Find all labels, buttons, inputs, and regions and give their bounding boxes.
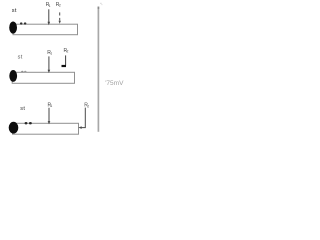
label R1 (row 3) [48, 103, 53, 109]
axon fiber 1 (top bar) [13, 24, 78, 35]
label R2 (row 1) [56, 2, 61, 8]
label st (row 3) [20, 106, 25, 112]
axon fiber 3 (bottom bar) [13, 123, 79, 134]
svg-text:'75mV: '75mV [105, 80, 124, 87]
svg-text:st: st [18, 54, 23, 60]
stimulus electrode dots on axon 2 [21, 71, 26, 73]
svg-text:st: st [20, 106, 25, 112]
svg-text:2: 2 [87, 104, 89, 108]
electrode R2 elbow wire into cut end of axon 3 [78, 108, 85, 129]
electrode R2 lead wire (row 2) [65, 55, 67, 65]
svg-text:1: 1 [50, 51, 52, 55]
electrode R1 arrow into axon 2 [48, 56, 51, 73]
electrode R1 arrow into axon 3 [48, 108, 51, 125]
svg-text:st: st [12, 8, 17, 14]
voltage scale line [97, 7, 99, 132]
label R1 (row 2) [47, 50, 52, 56]
label R2 (row 3) [84, 103, 89, 109]
label R1 (row 1) [46, 2, 51, 8]
axon fiber 2 (middle bar) [12, 72, 74, 83]
stimulus electrode dots on axon 3 [25, 122, 32, 124]
cut end cap of axon 1 [9, 22, 17, 34]
electrode R2 dashed arrow onto surface of axon 1 [59, 12, 61, 23]
label -75mV on voltage scale [105, 80, 124, 87]
label st (row 1) [12, 8, 17, 14]
stimulus electrode dots on axon 1 [20, 22, 27, 24]
svg-text:1: 1 [50, 104, 52, 108]
label st (row 2) [18, 54, 23, 60]
svg-text:1: 1 [49, 4, 51, 8]
electrode R1 arrow into axon 1 [48, 9, 51, 25]
speck near top of scale line [100, 3, 102, 5]
svg-text:2: 2 [59, 3, 61, 7]
cut end cap of axon 3 [9, 122, 19, 134]
electrode R2 surface pad on axon 2 [62, 65, 67, 67]
label R2 (row 2) [64, 48, 69, 54]
svg-text:2: 2 [67, 50, 69, 54]
cut end cap of axon 2 [9, 70, 17, 82]
